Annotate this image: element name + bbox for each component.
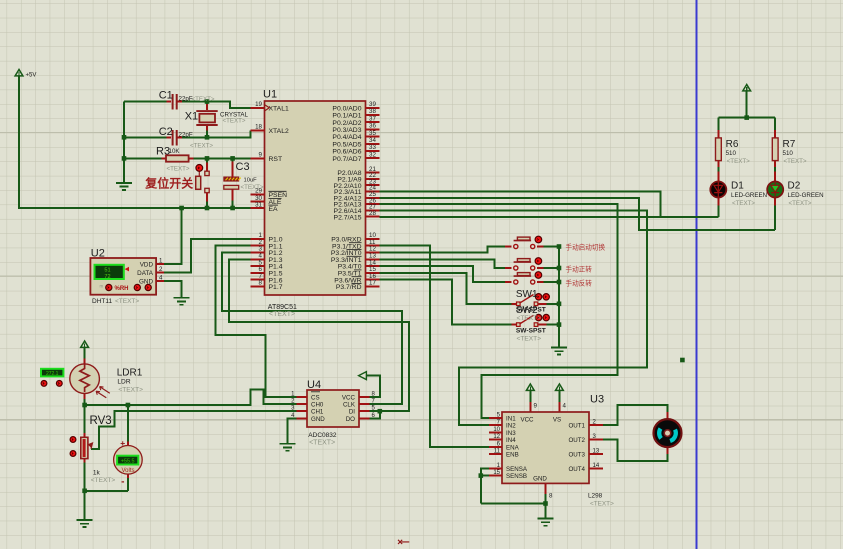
svg-text:P0.0/AD0: P0.0/AD0	[332, 105, 361, 112]
svg-text:<TEXT>: <TEXT>	[517, 315, 542, 322]
svg-text:P0.6/AD6: P0.6/AD6	[332, 149, 361, 156]
svg-text:OUT1: OUT1	[568, 423, 585, 430]
svg-text:P0.2/AD2: P0.2/AD2	[332, 120, 361, 127]
svg-text:<TEXT>: <TEXT>	[269, 311, 295, 318]
svg-text:1: 1	[159, 258, 163, 265]
svg-text:510: 510	[783, 150, 794, 157]
svg-text:17: 17	[369, 280, 376, 287]
svg-text:ENB: ENB	[506, 452, 519, 459]
svg-text:LED-GREEN: LED-GREEN	[788, 192, 824, 199]
svg-text:19: 19	[255, 101, 262, 108]
svg-text:IN2: IN2	[506, 423, 516, 430]
svg-text:X1: X1	[185, 111, 198, 123]
svg-text:EA: EA	[269, 206, 279, 213]
svg-text:10: 10	[493, 427, 500, 433]
svg-text:R7: R7	[783, 139, 796, 150]
svg-text:手动正转: 手动正转	[566, 265, 593, 274]
svg-text:LED-GREEN: LED-GREEN	[731, 192, 767, 199]
svg-text:R6: R6	[726, 139, 739, 150]
svg-text:L298: L298	[588, 493, 603, 500]
svg-text:31: 31	[255, 201, 262, 208]
svg-text:32: 32	[369, 151, 376, 158]
svg-text:<TEXT>: <TEXT>	[115, 298, 139, 305]
svg-text:72: 72	[104, 274, 110, 280]
svg-text:ENA: ENA	[506, 444, 520, 451]
svg-text:VS: VS	[553, 417, 561, 424]
svg-text:51: 51	[104, 268, 110, 274]
svg-text:<TEXT>: <TEXT>	[241, 184, 264, 191]
svg-text:<TEXT>: <TEXT>	[784, 158, 807, 165]
svg-text:SW-SPST: SW-SPST	[516, 328, 546, 335]
svg-text:11: 11	[494, 449, 501, 455]
svg-text:D2: D2	[788, 181, 801, 192]
svg-text:P3.7/RD: P3.7/RD	[336, 284, 362, 291]
svg-text:28: 28	[369, 210, 376, 217]
svg-text:13: 13	[593, 449, 600, 455]
svg-text:CS: CS	[311, 394, 320, 401]
svg-text:36: 36	[369, 123, 376, 130]
svg-text:U2: U2	[91, 247, 105, 259]
svg-text:+5V: +5V	[26, 73, 37, 79]
svg-text:U1: U1	[263, 89, 277, 101]
svg-text:10K: 10K	[169, 148, 181, 155]
svg-text:U4: U4	[307, 379, 321, 391]
svg-text:<TEXT>: <TEXT>	[192, 96, 215, 103]
svg-text:4: 4	[159, 275, 163, 282]
svg-text:ADC0832: ADC0832	[308, 432, 337, 439]
svg-text:CH1: CH1	[311, 409, 324, 416]
svg-text:SENSB: SENSB	[506, 473, 527, 480]
svg-text:12: 12	[493, 434, 500, 440]
svg-text:手动启动切换: 手动启动切换	[566, 243, 606, 252]
svg-text:35: 35	[369, 130, 376, 137]
svg-text:复位开关: 复位开关	[144, 176, 193, 191]
svg-text:m: m	[100, 284, 104, 289]
svg-text:CH0: CH0	[311, 402, 324, 409]
svg-text:Volts: Volts	[121, 468, 134, 474]
svg-text:P0.3/AD3: P0.3/AD3	[332, 127, 361, 134]
svg-text:<TEXT>: <TEXT>	[118, 387, 143, 394]
svg-text:P1.7: P1.7	[269, 284, 283, 291]
svg-text:272.1: 272.1	[46, 371, 59, 377]
svg-text:PSEN: PSEN	[269, 192, 288, 199]
svg-text:LDR: LDR	[117, 379, 130, 386]
svg-text:VCC: VCC	[342, 394, 356, 401]
svg-text:<TEXT>: <TEXT>	[727, 158, 750, 165]
svg-text:4: 4	[563, 403, 567, 410]
svg-text:手动反转: 手动反转	[566, 279, 593, 288]
svg-text:<TEXT>: <TEXT>	[223, 118, 246, 125]
svg-text:9: 9	[259, 152, 263, 159]
svg-text:<TEXT>: <TEXT>	[167, 166, 190, 173]
svg-text:P0.1/AD1: P0.1/AD1	[332, 113, 361, 120]
svg-text:+55.5: +55.5	[121, 458, 135, 464]
svg-text:P2.7/A15: P2.7/A15	[334, 214, 362, 221]
svg-text:AT89C51: AT89C51	[268, 304, 297, 311]
svg-text:XTAL1: XTAL1	[269, 105, 289, 112]
svg-text:<TEXT>: <TEXT>	[517, 336, 542, 343]
svg-text:-: -	[121, 477, 124, 488]
svg-text:<TEXT>: <TEXT>	[732, 200, 755, 207]
svg-text:<TEXT>: <TEXT>	[190, 143, 213, 150]
svg-text:XTAL2: XTAL2	[269, 128, 289, 135]
svg-text:+: +	[120, 438, 125, 448]
svg-text:37: 37	[369, 115, 376, 122]
svg-text:CLK: CLK	[343, 402, 356, 409]
svg-text:IN4: IN4	[506, 437, 516, 444]
svg-text:510: 510	[726, 150, 737, 157]
svg-text:39: 39	[369, 101, 376, 108]
svg-text:22pF: 22pF	[179, 132, 193, 139]
svg-text:<TEXT>: <TEXT>	[91, 477, 116, 484]
svg-text:OUT3: OUT3	[568, 452, 585, 459]
svg-text:<TEXT>: <TEXT>	[789, 200, 812, 207]
svg-text:OUT2: OUT2	[568, 437, 585, 444]
svg-text:D1: D1	[731, 181, 744, 192]
svg-text:33: 33	[369, 144, 376, 151]
svg-text:GND: GND	[533, 476, 547, 483]
svg-text:<TEXT>: <TEXT>	[309, 440, 335, 447]
svg-text:C2: C2	[159, 126, 173, 138]
svg-text:38: 38	[369, 108, 376, 115]
svg-text:10uF: 10uF	[244, 178, 258, 184]
svg-text:C1: C1	[159, 90, 173, 102]
svg-text:<TEXT>: <TEXT>	[590, 501, 614, 508]
svg-text:C3: C3	[236, 161, 250, 173]
svg-text:P0.5/AD5: P0.5/AD5	[332, 141, 361, 148]
svg-text:SW1: SW1	[516, 289, 538, 300]
svg-text:U3: U3	[590, 394, 604, 406]
svg-text:IN1: IN1	[506, 416, 516, 423]
svg-text:18: 18	[255, 124, 262, 131]
svg-text:DATA: DATA	[137, 270, 154, 277]
svg-text:9: 9	[534, 403, 538, 410]
svg-text:2: 2	[159, 266, 163, 273]
svg-text:P0.4/AD4: P0.4/AD4	[332, 134, 361, 141]
svg-text:15: 15	[493, 470, 500, 476]
svg-text:1k: 1k	[93, 470, 101, 477]
svg-text:RST: RST	[269, 156, 283, 163]
svg-text:GND: GND	[311, 416, 325, 423]
svg-text:SENSA: SENSA	[506, 466, 528, 473]
svg-text:DHT11: DHT11	[92, 298, 112, 305]
svg-text:8: 8	[549, 493, 553, 500]
svg-text:OUT4: OUT4	[568, 466, 585, 473]
svg-text:LDR1: LDR1	[117, 368, 143, 379]
svg-text:VCC: VCC	[520, 417, 534, 424]
svg-text:34: 34	[369, 137, 376, 144]
svg-text:14: 14	[593, 463, 600, 469]
svg-text:RV3: RV3	[90, 415, 112, 427]
svg-text:SW-SPST: SW-SPST	[516, 307, 546, 314]
svg-text:DI: DI	[349, 409, 355, 416]
svg-text:DO: DO	[346, 416, 355, 423]
svg-text:8: 8	[259, 280, 263, 287]
svg-text:IN3: IN3	[506, 430, 516, 437]
svg-text:P0.7/AD7: P0.7/AD7	[332, 156, 361, 163]
svg-text:GND: GND	[139, 278, 153, 285]
svg-text:VDD: VDD	[140, 261, 154, 268]
svg-text:%RH: %RH	[115, 286, 129, 292]
